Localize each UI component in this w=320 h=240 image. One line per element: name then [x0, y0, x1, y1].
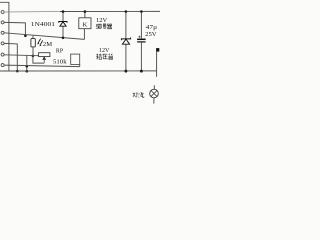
- wire T3 mid wire to relay stub: [4, 33, 84, 40]
- capacitor plus mark: [138, 36, 140, 38]
- ground bus: [0, 70, 157, 72]
- lamp X stroke 2: [151, 91, 157, 97]
- svg-text:K: K: [83, 21, 88, 28]
- capacitor C plate top: [137, 38, 146, 40]
- svg-text:2M: 2M: [43, 41, 53, 48]
- wire 2M top stub: [32, 36, 34, 39]
- wire zener branch: [125, 11, 127, 71]
- node diode bottom: [62, 37, 65, 40]
- wire lamp branch upper: [156, 52, 158, 77]
- terminal T4: [1, 42, 4, 45]
- node ground crossing: [26, 70, 29, 73]
- pot wiper arrow: [43, 57, 46, 63]
- wire top bus right part: [60, 10, 160, 12]
- contact blob (cropped component): [156, 48, 159, 52]
- node T2 junction: [24, 35, 27, 38]
- label lamp chinese 灯泡 (drawn): [133, 93, 144, 98]
- svg-text:510k: 510k: [53, 59, 68, 66]
- svg-text:RP: RP: [56, 47, 64, 54]
- relay coil K box: [79, 18, 91, 29]
- wire lamp bottom lead: [153, 98, 155, 104]
- wire T2 to mid wire: [4, 22, 25, 35]
- zener bar: [121, 38, 130, 41]
- contact box: [71, 54, 80, 64]
- node relay top: [84, 10, 87, 13]
- svg-text:12V: 12V: [96, 18, 108, 24]
- node capacitor top: [140, 10, 143, 13]
- terminal T3: [1, 31, 4, 34]
- label zener chinese 稳压管 (drawn): [96, 54, 113, 60]
- wire lamp top lead: [153, 85, 155, 89]
- node diode top: [62, 10, 65, 13]
- zener triangle: [122, 39, 129, 44]
- svg-text:12V: 12V: [99, 48, 110, 54]
- wire 2M bottom stub: [32, 47, 34, 56]
- node mid crossing: [26, 65, 29, 68]
- node zener bottom: [124, 70, 127, 73]
- light arrow 1: [38, 39, 40, 43]
- wire T5 to pot: [4, 54, 38, 57]
- module box (left, cropped): [0, 2, 9, 71]
- terminal T6: [1, 64, 4, 67]
- node 2M bottom: [32, 55, 35, 58]
- potentiometer RP body: [39, 53, 50, 57]
- wire T4 down: [4, 43, 17, 71]
- contact box stub: [79, 65, 81, 67]
- diode VD 1N4001 cathode bar: [59, 22, 67, 23]
- wire diode branch: [62, 12, 64, 38]
- wire relay coil bottom stub: [83, 29, 85, 40]
- terminal T5: [1, 53, 4, 56]
- node capacitor bottom: [140, 70, 143, 73]
- wire T6 line: [4, 65, 80, 67]
- label relay chinese 继电器 (drawn): [96, 24, 112, 29]
- lamp X stroke 1: [151, 91, 157, 97]
- wire capacitor branch top: [140, 11, 142, 38]
- node T4 ground: [16, 70, 19, 73]
- wire wiper loop: [33, 56, 44, 63]
- diode VD triangle: [60, 22, 66, 27]
- svg-text:1N4001: 1N4001: [31, 22, 55, 28]
- svg-text:47μ: 47μ: [146, 25, 157, 31]
- lamp symbol: [150, 89, 159, 98]
- light arrow 2: [40, 40, 42, 44]
- svg-text:25V: 25V: [145, 32, 157, 38]
- photoresistor 2M body: [31, 39, 35, 47]
- terminal T1: [1, 11, 4, 14]
- wire relay top stub: [84, 12, 86, 18]
- wire T5 node down: [26, 56, 28, 72]
- node zener top: [125, 10, 128, 13]
- terminal T2: [1, 21, 4, 24]
- capacitor C plate bottom: [137, 41, 146, 43]
- wire capacitor branch bottom: [140, 43, 142, 72]
- wire top bus from T1: [4, 11, 60, 14]
